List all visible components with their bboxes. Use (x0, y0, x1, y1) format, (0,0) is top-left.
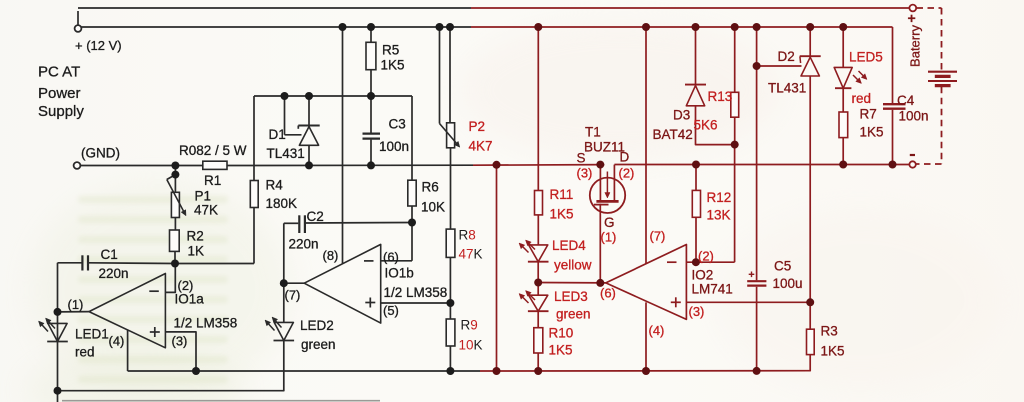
svg-text:(4): (4) (109, 334, 125, 349)
svg-text:220n: 220n (99, 266, 129, 281)
svg-text:1K5: 1K5 (549, 343, 573, 358)
svg-text:(3): (3) (172, 334, 188, 349)
svg-text:+: + (908, 10, 916, 26)
svg-text:R4: R4 (266, 178, 284, 193)
svg-text:(GND): (GND) (81, 146, 120, 161)
svg-text:PC AT: PC AT (38, 64, 80, 81)
svg-text:D2: D2 (778, 49, 795, 64)
svg-text:LED2: LED2 (300, 318, 334, 333)
svg-text:(1): (1) (601, 230, 617, 245)
svg-text:1K5: 1K5 (550, 207, 574, 222)
svg-text:TL431: TL431 (267, 146, 305, 161)
svg-text:C2: C2 (307, 209, 324, 224)
svg-text:LED1: LED1 (75, 327, 109, 342)
svg-text:10K: 10K (459, 338, 483, 353)
svg-text:D1: D1 (269, 127, 286, 142)
svg-text:1K5: 1K5 (821, 344, 845, 359)
svg-text:R11: R11 (550, 187, 574, 202)
svg-text:R13: R13 (708, 89, 733, 104)
svg-text:green: green (556, 307, 591, 322)
svg-text:(6): (6) (383, 250, 399, 265)
svg-text:5K6: 5K6 (694, 118, 718, 133)
svg-text:IO2: IO2 (692, 268, 714, 283)
svg-text:LED3: LED3 (554, 289, 588, 304)
svg-text:(6): (6) (600, 286, 616, 301)
svg-text:(7): (7) (650, 229, 666, 244)
svg-text:1K: 1K (188, 244, 205, 259)
svg-text:LM741: LM741 (692, 282, 733, 297)
svg-text:R9: R9 (461, 318, 478, 333)
svg-text:100u: 100u (773, 276, 803, 291)
svg-text:S: S (577, 151, 586, 166)
svg-text:R2: R2 (187, 229, 204, 244)
svg-text:green: green (301, 337, 336, 352)
svg-text:C3: C3 (389, 117, 406, 132)
svg-text:(8): (8) (323, 248, 339, 263)
svg-text:P2: P2 (469, 119, 486, 134)
svg-text:C4: C4 (897, 93, 915, 108)
svg-text:R3: R3 (821, 324, 838, 339)
svg-text:TL431: TL431 (768, 81, 806, 96)
svg-text:R5: R5 (382, 43, 399, 58)
svg-text:R082 / 5 W: R082 / 5 W (179, 143, 247, 158)
svg-text:1K5: 1K5 (381, 58, 405, 73)
svg-text:R8: R8 (459, 228, 476, 243)
svg-text:(2): (2) (698, 249, 714, 264)
svg-text:R6: R6 (422, 180, 439, 195)
svg-text:47K: 47K (459, 247, 483, 262)
svg-text:(3): (3) (689, 304, 705, 319)
svg-text:(5): (5) (383, 303, 399, 318)
svg-text:yellow: yellow (554, 258, 592, 273)
svg-text:(7): (7) (285, 288, 301, 303)
svg-text:C1: C1 (101, 247, 118, 262)
svg-text:Power: Power (38, 85, 81, 102)
svg-text:4K7: 4K7 (469, 139, 493, 154)
svg-text:C5: C5 (774, 259, 791, 274)
svg-text:47K: 47K (194, 203, 218, 218)
svg-text:1K5: 1K5 (860, 125, 884, 140)
svg-text:D3: D3 (673, 108, 690, 123)
svg-text:1/2 LM358: 1/2 LM358 (174, 316, 238, 331)
svg-text:red: red (852, 91, 872, 106)
svg-text:100n: 100n (899, 109, 929, 124)
svg-text:IO1a: IO1a (175, 292, 205, 307)
svg-text:red: red (75, 345, 95, 360)
svg-text:R7: R7 (860, 107, 877, 122)
svg-text:Baterry: Baterry (908, 25, 923, 67)
svg-text:(2): (2) (619, 166, 635, 181)
svg-text:100n: 100n (379, 139, 409, 154)
svg-text:R1: R1 (204, 173, 221, 188)
svg-text:LED5: LED5 (849, 50, 883, 65)
svg-text:P1: P1 (195, 189, 212, 204)
svg-text:180K: 180K (266, 196, 298, 211)
svg-text:13K: 13K (707, 208, 731, 223)
svg-text:R10: R10 (549, 326, 574, 341)
svg-text:220n: 220n (289, 237, 319, 252)
svg-text:G: G (604, 215, 615, 230)
svg-text:D: D (620, 150, 630, 165)
svg-text:+ (12 V): + (12 V) (75, 38, 122, 53)
svg-text:BAT42: BAT42 (653, 127, 693, 142)
svg-text:(3): (3) (577, 166, 593, 181)
svg-text:1/2 LM358: 1/2 LM358 (384, 285, 448, 300)
svg-text:10K: 10K (421, 200, 445, 215)
svg-text:(4): (4) (649, 323, 665, 338)
svg-text:(1): (1) (68, 297, 84, 312)
svg-text:IO1b: IO1b (385, 266, 414, 281)
svg-text:R12: R12 (707, 190, 732, 205)
svg-text:LED4: LED4 (552, 238, 586, 253)
svg-text:T1: T1 (585, 125, 601, 140)
svg-text:Supply: Supply (38, 103, 84, 120)
